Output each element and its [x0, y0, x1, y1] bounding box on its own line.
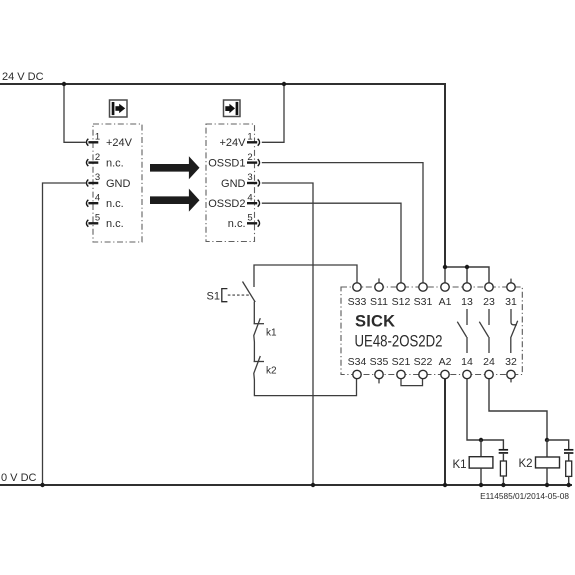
svg-text:3: 3: [95, 172, 100, 183]
svg-text:S22: S22: [414, 356, 433, 368]
svg-text:+24V: +24V: [220, 137, 247, 149]
contact 23-24: [479, 309, 489, 353]
terminal nub 31 top: [510, 279, 512, 283]
svg-text:2: 2: [95, 152, 100, 163]
svg-text:S35: S35: [370, 356, 389, 368]
connector J2 pin 1: [220, 132, 260, 150]
terminal nub 32 bottom: [510, 379, 512, 383]
terminal S22: [414, 356, 433, 379]
svg-text:5: 5: [95, 213, 100, 224]
wire 24 to K2 node: [489, 379, 549, 442]
svg-text:OSSD2: OSSD2: [208, 198, 245, 210]
svg-text:OSSD1: OSSD1: [208, 158, 245, 170]
svg-text:3: 3: [247, 172, 252, 183]
svg-text:2: 2: [247, 152, 252, 163]
svg-text:1: 1: [95, 132, 100, 143]
contact 31-32 NC: [511, 309, 518, 353]
svg-text:24: 24: [483, 356, 495, 368]
svg-text:GND: GND: [106, 178, 131, 190]
contact k2: [254, 356, 277, 395]
svg-text:14: 14: [461, 356, 473, 368]
terminal 31: [505, 283, 517, 308]
terminal S34: [348, 356, 367, 379]
terminal S35: [370, 356, 389, 379]
svg-text:n.c.: n.c.: [228, 218, 246, 230]
svg-text:S11: S11: [370, 296, 388, 308]
svg-text:n.c.: n.c.: [106, 218, 124, 230]
svg-text:n.c.: n.c.: [106, 198, 124, 210]
terminal S21: [392, 356, 411, 379]
connector J1 pin 5: [86, 213, 123, 231]
wire S1 chain top to S33: [254, 265, 357, 287]
terminal 23: [483, 283, 495, 308]
capacitor K2 snubber: [547, 440, 573, 461]
terminal S11: [370, 283, 388, 308]
wire left connector GND to 0V rail: [40, 183, 86, 487]
svg-text:E114585/01/2014-05-08: E114585/01/2014-05-08: [480, 491, 569, 501]
wire A1 13 23 feed: [443, 265, 489, 283]
connector J1 pin 2: [86, 152, 123, 170]
svg-text:UE48-2OS2D2: UE48-2OS2D2: [355, 332, 443, 351]
terminal A2: [439, 356, 452, 379]
arrow signal-flow upper: [150, 156, 200, 179]
terminal S33: [348, 283, 367, 308]
wire k2 bottom to S34: [254, 379, 356, 396]
terminal 14: [461, 356, 473, 379]
svg-text:0 V DC: 0 V DC: [1, 472, 37, 484]
jumper S21-S22: [401, 379, 423, 386]
wire OSSD2 to S12: [262, 203, 401, 283]
connector J2 pin 5: [228, 213, 260, 231]
arrow signal-flow lower: [150, 189, 200, 212]
svg-text:S1: S1: [207, 291, 220, 303]
svg-text:5: 5: [247, 213, 252, 224]
svg-text:K1: K1: [453, 459, 467, 471]
relay U1 model UE48-2OS2D2: [355, 332, 443, 351]
svg-text:S33: S33: [348, 296, 367, 308]
svg-text:13: 13: [461, 296, 473, 308]
relay coil K2: [519, 440, 560, 487]
svg-text:1: 1: [247, 132, 252, 143]
connector J1 pin 1: [86, 132, 132, 150]
svg-text:32: 32: [505, 356, 517, 368]
connector J1 pin 4: [86, 192, 123, 210]
wire 24V rail to left connector pin1: [62, 82, 86, 143]
svg-text:S34: S34: [348, 356, 367, 368]
svg-text:S31: S31: [414, 296, 433, 308]
svg-text:GND: GND: [221, 178, 246, 190]
svg-text:k2: k2: [266, 366, 277, 377]
capacitor K1 snubber: [499, 450, 508, 461]
wire OSSD1 to S31: [262, 163, 423, 283]
terminal nub S35 bottom: [378, 379, 380, 384]
svg-text:4: 4: [247, 192, 252, 203]
terminal S12: [392, 283, 411, 308]
svg-text:A2: A2: [439, 356, 452, 368]
resistor K2 snubber: [566, 461, 572, 487]
relay U1 outline: [341, 287, 522, 375]
terminal A1: [439, 283, 452, 308]
wire right connector GND to 0V rail: [262, 183, 315, 487]
relay coil K1: [453, 440, 493, 487]
terminal S31: [414, 283, 433, 308]
switch S1: [207, 282, 256, 324]
node 24V rail: [0, 71, 445, 267]
connector J2 pin 4: [208, 192, 259, 210]
connector J2 pin 3: [221, 172, 260, 190]
connector J2 outline: [206, 124, 255, 242]
relay U1 SICK logo: [355, 313, 395, 331]
svg-text:S21: S21: [392, 356, 411, 368]
resistor K1 snubber: [500, 461, 506, 487]
svg-text:A1: A1: [439, 296, 452, 308]
wire A2 to 0V rail: [443, 379, 447, 487]
terminal 13: [461, 283, 473, 308]
node 0V rail: [0, 472, 572, 485]
icon input-plug above J2: [224, 100, 241, 117]
svg-text:4: 4: [95, 192, 100, 203]
svg-text:SICK: SICK: [355, 313, 395, 331]
svg-text:S12: S12: [392, 296, 411, 308]
svg-text:k1: k1: [266, 328, 277, 339]
icon output-plug above J1: [110, 100, 128, 117]
connector J2 pin 2: [208, 152, 259, 170]
svg-text:23: 23: [483, 296, 495, 308]
terminal nub S11 top: [378, 278, 380, 283]
wire right connector pin1 to 24V rail: [262, 82, 286, 143]
contact 13-14: [457, 309, 467, 353]
svg-text:+24V: +24V: [106, 137, 133, 149]
document number: [480, 491, 569, 501]
svg-text:K2: K2: [519, 458, 533, 470]
connector J1 outline: [93, 124, 142, 242]
terminal 32: [505, 356, 517, 379]
contact k1: [254, 318, 277, 361]
svg-text:31: 31: [505, 296, 517, 308]
connector J1 pin 3: [86, 172, 130, 190]
wire 14 to K1 node: [467, 379, 503, 449]
svg-text:24 V DC: 24 V DC: [2, 71, 44, 83]
terminal 24: [483, 356, 495, 379]
svg-text:n.c.: n.c.: [106, 158, 124, 170]
